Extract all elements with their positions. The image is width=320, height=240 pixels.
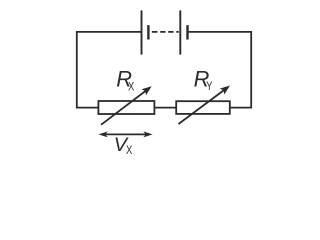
svg-text:X: X [126, 143, 132, 157]
battery cell 2 short plate [186, 25, 188, 39]
resistor RY box [176, 101, 230, 114]
wire left side (down from top-left corner into RX) [77, 31, 99, 108]
wire between RX and RY [154, 107, 176, 109]
battery cell 1 short plate [147, 25, 149, 39]
VX measurement arrow (double headed) [99, 131, 153, 137]
battery cell 1 long plate [141, 10, 143, 54]
wire top-left (top-left corner to battery) [77, 31, 142, 33]
svg-text:X: X [128, 80, 134, 94]
wire top-right (battery to top-right corner) [188, 31, 252, 33]
wire right side (down from top-right corner into RY) [230, 31, 251, 108]
label VX [114, 134, 133, 157]
battery cell 2 long plate [179, 10, 181, 54]
label RX [116, 67, 134, 94]
resistor RX box [98, 101, 154, 114]
resistor RX variable arrow [101, 86, 152, 125]
svg-text:Y: Y [206, 79, 212, 93]
resistor RY variable arrow [179, 86, 231, 125]
label RY [194, 67, 213, 93]
dashed wire between cells [152, 31, 179, 33]
